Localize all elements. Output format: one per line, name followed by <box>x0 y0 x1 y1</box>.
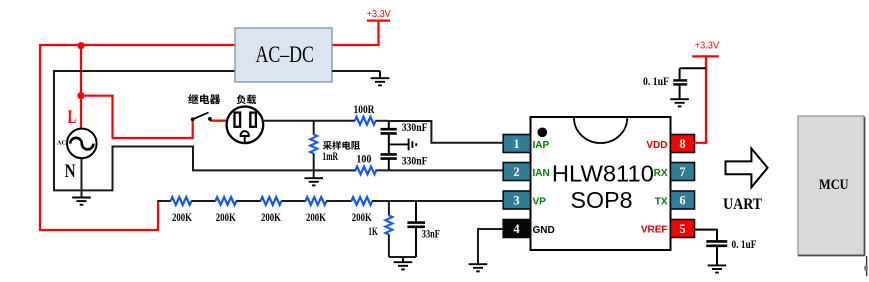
AC source BT1 <box>67 129 97 159</box>
svg-text:200K: 200K <box>261 210 281 224</box>
svg-text:IAP: IAP <box>533 140 550 151</box>
ground <box>394 262 413 269</box>
relay label 继电器 <box>188 94 220 104</box>
op-amp U1 HLW8110 SOP8 body <box>531 117 671 250</box>
resistor R4 200K <box>306 197 327 205</box>
wire net L: left loop down to VP divider <box>40 44 158 230</box>
capacitor 0.1uF VREF <box>695 230 728 266</box>
wire 100R to filter node <box>375 120 388 122</box>
svg-text:SOP8: SOP8 <box>571 187 633 213</box>
capacitor 33nF <box>407 201 425 257</box>
svg-text:6: 6 <box>679 193 685 207</box>
wire VP with 200K chain <box>158 200 171 202</box>
junction node dot <box>77 92 84 99</box>
svg-text:VREF: VREF <box>641 225 668 236</box>
svg-text:VP: VP <box>533 197 547 208</box>
svg-text:N: N <box>65 161 76 182</box>
resistor 100R <box>355 117 376 125</box>
svg-text:200K: 200K <box>352 210 372 224</box>
capacitor C1 330nF <box>381 121 397 153</box>
ground <box>670 99 689 106</box>
pin 6 TX <box>655 191 695 209</box>
shunt resistor 采样电阻 1mR <box>313 121 315 135</box>
+3.3V supply left <box>367 20 390 22</box>
ground <box>708 265 727 272</box>
svg-text:1K: 1K <box>368 224 378 238</box>
svg-text:100R: 100R <box>354 102 375 116</box>
svg-text:RX: RX <box>654 168 668 179</box>
wire AC-DC gnd <box>332 70 380 72</box>
svg-text:1mR: 1mR <box>322 149 338 163</box>
svg-text:HLW8110: HLW8110 <box>552 160 654 186</box>
wire net VP to pin 3 <box>372 200 503 202</box>
pin 8 VDD <box>646 135 694 153</box>
pin 2 IAN <box>503 163 550 181</box>
svg-text:330nF: 330nF <box>402 120 428 134</box>
svg-text:IAN: IAN <box>533 168 550 179</box>
shunt label 采样电阻 <box>323 141 360 150</box>
MCU box <box>798 116 865 256</box>
svg-text:+3.3V: +3.3V <box>367 9 391 20</box>
ground <box>379 71 381 78</box>
capacitor C2 330nF <box>381 154 397 170</box>
wire load to shunt <box>262 120 356 122</box>
wire net L: drop to AC source <box>80 45 82 130</box>
svg-text:AC–DC: AC–DC <box>255 42 314 67</box>
svg-text:330nF: 330nF <box>402 153 428 167</box>
pin 3 VP <box>503 191 546 209</box>
svg-text:100: 100 <box>356 152 371 166</box>
svg-text:2: 2 <box>513 165 519 179</box>
load socket LD1 <box>227 107 264 144</box>
pin 4 GND <box>503 220 555 238</box>
resistor R5 200K <box>351 197 372 205</box>
svg-text:3: 3 <box>513 193 519 207</box>
wire VP divider segment <box>191 200 215 202</box>
svg-text:7: 7 <box>679 165 685 179</box>
ground <box>72 198 91 205</box>
ground <box>304 178 323 185</box>
wire net N: AC-DC input, AC source return, to shunt bottom <box>54 71 356 190</box>
load label 负载 <box>237 95 257 105</box>
svg-text:L: L <box>68 107 77 128</box>
wire VP divider segment <box>281 200 306 202</box>
svg-text:TX: TX <box>655 197 668 208</box>
relay switch S1 <box>191 112 212 121</box>
wire net L: branch to relay contact <box>81 96 193 138</box>
junction node dot <box>77 42 84 49</box>
svg-text:1: 1 <box>513 137 519 151</box>
pin 5 VREF <box>641 220 695 238</box>
svg-text:200K: 200K <box>172 210 192 224</box>
wire net IAN: shunt bottom to pin 2 <box>375 169 503 171</box>
resistor R3 200K <box>261 197 282 205</box>
wire net L: AC live to AC-DC input <box>40 44 235 46</box>
+3.3V supply right <box>692 55 718 57</box>
svg-text:+3.3V: +3.3V <box>695 41 720 52</box>
resistor R2 200K <box>215 197 236 205</box>
wire net +3.3V from AC-DC output <box>332 21 379 45</box>
wire VP divider segment <box>326 200 351 202</box>
UART arrow <box>726 149 768 188</box>
ground <box>469 264 488 271</box>
svg-text:5: 5 <box>679 222 685 236</box>
rotated ground at cap midpoint <box>389 143 409 145</box>
svg-text:GND: GND <box>533 225 555 236</box>
wire IAP <box>389 121 503 143</box>
svg-text:33nF: 33nF <box>422 226 440 240</box>
svg-text:VDD: VDD <box>646 140 667 151</box>
wire 1K/33nF bottom <box>389 256 416 258</box>
svg-text:200K: 200K <box>216 210 236 224</box>
svg-text:4: 4 <box>513 222 520 236</box>
svg-text:0. 1uF: 0. 1uF <box>732 237 757 251</box>
pin 7 RX <box>654 163 695 181</box>
resistor R1 200K <box>171 197 192 205</box>
wire GND pin4 <box>478 229 503 264</box>
capacitor 0.1uF VDD <box>673 68 706 99</box>
wire AC source to ground <box>81 158 83 198</box>
resistor 100 <box>355 167 376 175</box>
svg-text:UART: UART <box>723 196 762 213</box>
wire VDD red <box>695 56 707 142</box>
svg-text:200K: 200K <box>306 210 326 224</box>
svg-text:8: 8 <box>679 137 685 151</box>
AC-DC module PS1 <box>235 28 332 82</box>
resistor 1K <box>388 201 390 216</box>
svg-text:0. 1uF: 0. 1uF <box>643 74 669 88</box>
cursor artifact <box>866 256 868 276</box>
wire relay to load <box>210 119 228 121</box>
svg-text:AC: AC <box>57 140 67 147</box>
wire VP divider segment <box>236 200 261 202</box>
svg-text:MCU: MCU <box>819 177 849 193</box>
pin 1 IAP <box>503 135 549 153</box>
